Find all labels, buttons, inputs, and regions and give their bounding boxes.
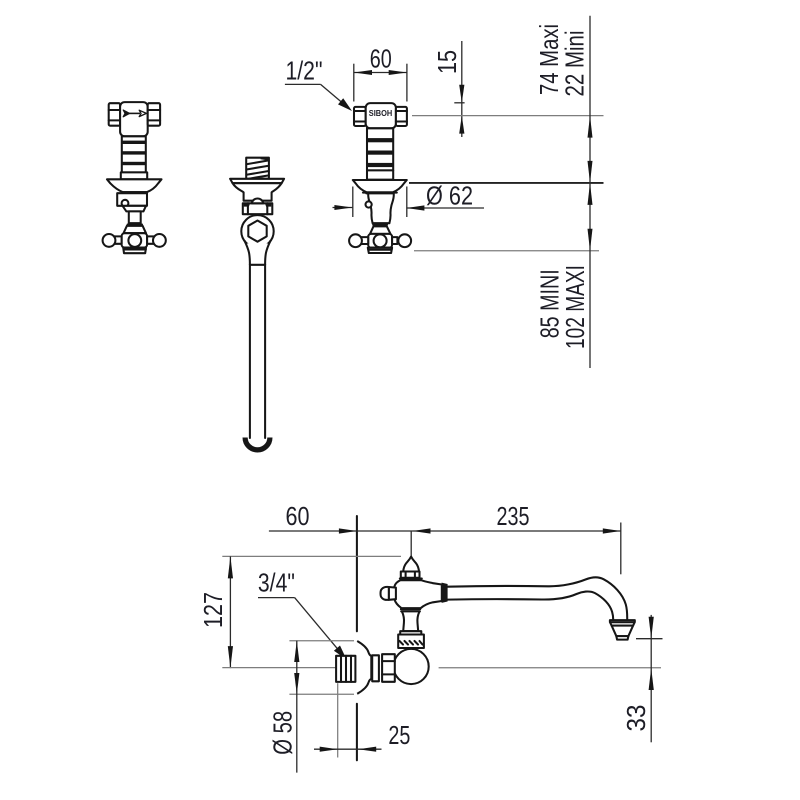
spout nozzle xyxy=(610,620,635,640)
front ball xyxy=(128,234,141,247)
svg-text:127: 127 xyxy=(198,592,228,628)
faucet top body xyxy=(394,580,441,608)
faucet neck rings xyxy=(401,608,420,610)
extension line inlet axis left xyxy=(222,667,348,669)
bonnet ribbed column xyxy=(122,136,146,172)
valve body (side) xyxy=(120,102,148,136)
flange plate xyxy=(230,179,284,183)
left ball xyxy=(103,234,116,247)
right chain dimension line xyxy=(589,16,591,368)
ball joint xyxy=(241,215,273,247)
left arm xyxy=(114,236,122,243)
escutcheon brim (front) xyxy=(353,180,407,192)
dim Ø62 leader xyxy=(406,207,484,209)
flange bell xyxy=(233,183,282,201)
svg-text:15: 15 xyxy=(432,50,462,74)
bonnet ribbed column xyxy=(367,128,393,170)
flow direction arrow xyxy=(123,110,146,117)
inlet hex nut xyxy=(382,654,395,682)
finial collar xyxy=(401,572,420,578)
body collar ring xyxy=(400,577,422,579)
faucet neck xyxy=(402,611,420,631)
svg-text:60: 60 xyxy=(370,44,392,74)
tube end cap xyxy=(245,438,270,450)
inlet spacer ring xyxy=(372,655,379,681)
handle skirt xyxy=(123,248,146,254)
threaded stub xyxy=(246,158,269,179)
dim Ø58 line xyxy=(296,641,298,773)
right hex nut xyxy=(396,107,407,126)
ball body xyxy=(394,649,429,684)
dim 25 ext line xyxy=(337,683,339,757)
svg-text:102 MAXI: 102 MAXI xyxy=(560,265,590,349)
spout bottom curve xyxy=(448,591,614,619)
right arm xyxy=(392,237,397,244)
dim 15 line xyxy=(461,41,463,137)
dim Ø62 left arrow xyxy=(333,207,353,209)
svg-text:60: 60 xyxy=(286,501,310,531)
taper to tube xyxy=(245,241,250,265)
inlet threads xyxy=(336,656,355,682)
handle hub xyxy=(122,233,148,247)
left arm xyxy=(361,237,369,244)
dim 60 line xyxy=(354,72,407,74)
bottom drawing: wall-mounted faucet xyxy=(198,501,663,773)
svg-text:1/2": 1/2" xyxy=(286,56,323,86)
extension line body mid xyxy=(412,115,604,117)
handle skirt xyxy=(368,248,392,253)
handle neck shoulder xyxy=(123,206,147,212)
dim 15 tick xyxy=(454,102,464,104)
set screw xyxy=(122,200,129,207)
extension assembly (middle) xyxy=(230,158,284,450)
left ball xyxy=(349,234,362,247)
valve front view (top-right) xyxy=(349,103,411,253)
svg-text:SIBOH: SIBOH xyxy=(369,108,393,118)
svg-text:25: 25 xyxy=(388,720,410,750)
left acorn stub xyxy=(389,587,396,600)
valve side view (top-left) xyxy=(103,102,166,253)
svg-text:Ø 58: Ø 58 xyxy=(268,711,298,755)
extension line inlet axis right xyxy=(439,667,661,669)
dim 127 line xyxy=(229,556,231,668)
neck collar xyxy=(400,631,421,635)
valve body (front) xyxy=(366,103,396,128)
svg-text:22 Mini: 22 Mini xyxy=(560,31,590,97)
hub flare xyxy=(124,226,147,233)
extension line handle end xyxy=(414,250,599,252)
right ball xyxy=(398,234,411,247)
neck ring xyxy=(128,223,142,225)
svg-text:Ø 62: Ø 62 xyxy=(426,181,473,211)
spout tip extension xyxy=(620,523,622,575)
right hex nut xyxy=(148,103,160,126)
escutcheon brim (side) xyxy=(107,179,162,192)
dim 33 ext line xyxy=(636,638,663,640)
left hex nut xyxy=(354,107,366,126)
dim Ø58 ext bottom xyxy=(289,693,354,695)
dim 60 extension lines xyxy=(353,64,355,102)
spout top curve xyxy=(448,577,628,619)
lock nut xyxy=(243,198,272,214)
handle neck xyxy=(129,211,141,223)
set screw xyxy=(366,201,372,207)
wall line xyxy=(356,516,358,631)
right ball xyxy=(153,234,166,247)
faucet centre extension xyxy=(410,531,412,557)
stem step xyxy=(121,172,147,179)
handle hub xyxy=(368,234,392,248)
spout ferrule xyxy=(442,583,448,603)
left hex nut xyxy=(109,103,120,126)
extension line escutcheon xyxy=(409,182,604,184)
top drawing dimensions xyxy=(285,16,604,368)
stem step xyxy=(367,170,393,179)
neck ring xyxy=(373,224,387,226)
knurled ring xyxy=(398,635,424,649)
baluster neck xyxy=(366,193,394,223)
dim Ø58 ext top xyxy=(289,640,354,642)
escutcheon rim xyxy=(363,192,397,194)
dim Ø62 extension lines xyxy=(352,187,354,218)
down tube xyxy=(249,265,251,438)
escutcheon collar xyxy=(117,193,147,206)
hex socket xyxy=(248,221,266,242)
right arm xyxy=(147,236,154,243)
svg-text:3/4": 3/4" xyxy=(258,568,295,598)
front ball xyxy=(374,234,387,247)
dim 25 line xyxy=(314,748,382,750)
svg-text:33: 33 xyxy=(621,705,651,732)
faucet finial xyxy=(403,557,419,572)
inlet escutcheon bell xyxy=(357,641,371,694)
dim line 60/235 xyxy=(269,530,621,532)
svg-text:235: 235 xyxy=(497,501,530,531)
dim 33 line xyxy=(650,615,652,742)
hub flare xyxy=(370,226,391,234)
extension line faucet top xyxy=(222,555,401,557)
